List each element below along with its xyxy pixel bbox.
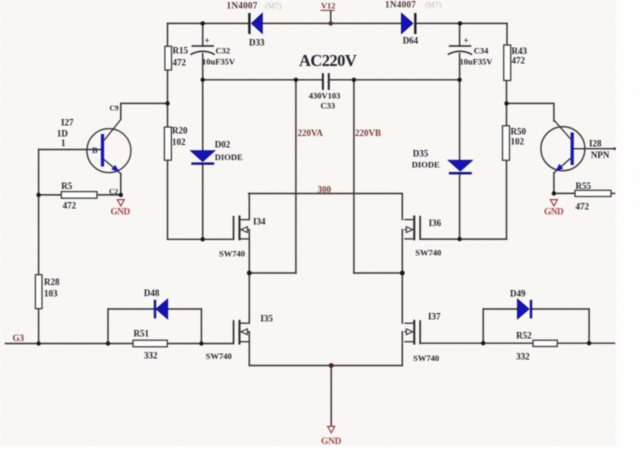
diode D33 (248, 13, 265, 48)
diode D02 (191, 140, 243, 165)
wire right emitter down (553, 173, 555, 194)
svg-text:C9: C9 (110, 104, 119, 113)
svg-text:R20: R20 (172, 126, 188, 136)
svg-text:G3: G3 (13, 333, 25, 343)
wire R55 right stub (611, 192, 615, 194)
svg-text:D33: D33 (249, 38, 265, 48)
node V12 (321, 2, 336, 11)
svg-text:D48: D48 (144, 288, 160, 298)
wire D48 loop left vertical (107, 309, 109, 344)
svg-text:NPN: NPN (591, 150, 610, 160)
wire 220VB vertical (353, 80, 355, 273)
wire upper-right gate line (421, 238, 507, 240)
mosfet I37 (404, 312, 441, 364)
wire D35 column (459, 80, 461, 161)
svg-text:GND: GND (544, 207, 564, 217)
wire D48 loop top right (168, 308, 201, 310)
wire lower-right source vertical (401, 332, 403, 366)
wire G3 line (5, 343, 233, 345)
svg-text:430V103: 430V103 (309, 91, 341, 101)
wire 220VB to right node (354, 272, 402, 274)
ground left (111, 200, 131, 217)
svg-text:(M7): (M7) (265, 2, 282, 11)
svg-text:C33: C33 (321, 101, 336, 111)
svg-text:SW740: SW740 (206, 351, 232, 361)
svg-text:300: 300 (318, 184, 332, 194)
svg-text:472: 472 (512, 56, 526, 66)
svg-text:R52: R52 (516, 331, 532, 341)
svg-text:R28: R28 (44, 277, 60, 287)
wire D49 loop top left (483, 308, 518, 310)
svg-text:332: 332 (144, 351, 158, 361)
mosfet I34 (219, 216, 266, 259)
ground right (544, 200, 564, 217)
svg-text:(M7): (M7) (425, 1, 442, 10)
wire D49 loop left vertical (482, 309, 484, 343)
svg-text:R15: R15 (173, 46, 189, 56)
wire 300 rail (249, 193, 403, 195)
svg-text:I28: I28 (589, 139, 602, 149)
svg-text:SW740: SW740 (413, 353, 439, 363)
wire right emitter to R55 (554, 192, 575, 194)
wire left emitter down (120, 174, 122, 195)
diode D64 (402, 13, 419, 46)
wire left column R15/R20 (167, 23, 169, 46)
wire 220VA vertical (295, 80, 297, 273)
svg-text:D02: D02 (215, 140, 231, 150)
resistor R28 (35, 275, 60, 309)
svg-text:332: 332 (516, 352, 530, 362)
wire R5 left link (39, 194, 62, 196)
wire AC220V line right (330, 79, 460, 81)
svg-text:R51: R51 (134, 329, 150, 339)
svg-text:R43: R43 (512, 46, 528, 56)
wire C32 column to AC line (202, 54, 204, 80)
svg-text:DIODE: DIODE (412, 160, 440, 170)
svg-text:1D: 1D (57, 129, 69, 139)
wire left base column (38, 150, 40, 275)
svg-text:1N4007: 1N4007 (385, 0, 416, 10)
svg-text:R5: R5 (61, 181, 72, 191)
wire C34 column to AC line (459, 54, 461, 80)
diode D49 (510, 289, 532, 319)
svg-text:GND: GND (321, 437, 342, 447)
ground bottom (321, 426, 342, 446)
resistor R43 (504, 45, 528, 81)
transistor Q I28 (541, 120, 610, 173)
svg-text:R55: R55 (576, 181, 592, 191)
resistor R52 (516, 331, 557, 362)
wire left source/drain vertical (248, 230, 250, 324)
svg-text:B: B (92, 145, 98, 155)
wire upper-right drain vertical (401, 194, 403, 220)
svg-text:GND: GND (111, 207, 131, 217)
resistor R51 (133, 329, 167, 361)
wire AC220V line left (203, 79, 322, 81)
wire upper-left drain vertical (248, 194, 250, 220)
diode D48 (144, 288, 168, 319)
wire 220VA to left node (249, 272, 296, 274)
wire bottom rail (249, 365, 402, 367)
svg-text:+: + (205, 36, 210, 46)
mosfet I35 (206, 314, 274, 362)
resistor R55 (575, 181, 611, 212)
svg-text:472: 472 (63, 201, 77, 211)
resistor R5 (61, 181, 97, 211)
svg-text:472: 472 (173, 58, 187, 68)
svg-text:10uF35V: 10uF35V (202, 57, 236, 67)
wire upper-left gate line (168, 238, 234, 240)
wire D02 column (202, 80, 204, 151)
svg-text:C2: C2 (109, 187, 118, 196)
wire D48 loop top left (108, 308, 154, 310)
svg-text:D49: D49 (510, 289, 526, 299)
wire C32 column top (202, 23, 204, 46)
wire lower-right gate line (421, 342, 615, 344)
resistor R50 (503, 126, 527, 161)
svg-text:I37: I37 (428, 312, 441, 322)
svg-text:C34: C34 (474, 46, 489, 56)
wire V12 stub (330, 11, 332, 24)
resistor R20 (164, 126, 188, 161)
svg-text:I35: I35 (260, 314, 273, 324)
wire D48 loop right vertical (200, 309, 202, 344)
wire right source/drain vertical (401, 230, 403, 324)
transistor Q I27 (57, 104, 131, 197)
svg-text:V12: V12 (321, 2, 335, 11)
svg-text:+: + (464, 36, 469, 46)
wire bottom GND stub (330, 366, 332, 427)
svg-text:102: 102 (511, 137, 525, 147)
svg-text:C32: C32 (216, 46, 231, 56)
wire lower-left source vertical (248, 332, 250, 366)
svg-text:D35: D35 (413, 149, 429, 159)
svg-text:DIODE: DIODE (215, 152, 243, 162)
svg-text:10uF35V: 10uF35V (460, 57, 494, 67)
wire right column R43/R50 (506, 23, 508, 45)
wire D49 loop top right (532, 308, 590, 310)
capacitor C33 (309, 73, 341, 110)
svg-text:102: 102 (172, 137, 186, 147)
svg-text:1N4007: 1N4007 (227, 1, 258, 11)
wire D49 loop right vertical (588, 309, 590, 343)
wire top rail left segment (168, 22, 249, 24)
resistor R15 (165, 46, 189, 71)
svg-text:I27: I27 (61, 118, 74, 128)
svg-text:D64: D64 (403, 36, 419, 46)
mosfet I36 (404, 216, 441, 258)
wire top rail middle segment (262, 22, 401, 24)
wire R5 right link (97, 194, 121, 196)
wire top rail right segment (416, 22, 507, 24)
wire I27 base line (39, 149, 101, 151)
capacitor C32 (191, 36, 236, 67)
svg-text:220VB: 220VB (355, 128, 381, 138)
svg-text:103: 103 (44, 289, 58, 299)
wire C34 column top (459, 23, 461, 46)
capacitor C34 (448, 36, 494, 67)
label 1N4007 right (385, 0, 442, 10)
svg-text:1: 1 (61, 138, 66, 148)
svg-text:220VA: 220VA (298, 128, 324, 138)
diode D35 (412, 149, 472, 175)
svg-text:AC220V: AC220V (299, 51, 357, 70)
wire right collector link (507, 103, 554, 121)
label 1N4007 left (227, 1, 282, 11)
svg-text:I36: I36 (429, 218, 442, 228)
wire left collector link (121, 103, 168, 119)
svg-text:R50: R50 (511, 127, 527, 137)
svg-text:472: 472 (576, 202, 590, 212)
svg-text:SW740: SW740 (219, 249, 245, 259)
junction dots (165, 101, 169, 105)
svg-text:SW740: SW740 (415, 248, 441, 258)
svg-text:I34: I34 (253, 217, 266, 227)
wire I28 base stub (574, 148, 615, 150)
